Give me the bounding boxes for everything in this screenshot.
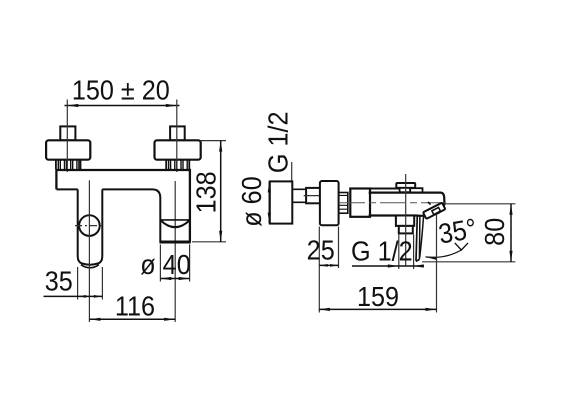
dim 116 line <box>89 318 175 320</box>
dim 138: top extension line <box>201 140 226 142</box>
handle/port vertical center line <box>405 174 407 266</box>
arrow 35 left <box>78 295 87 298</box>
right fitting square nut <box>170 126 185 140</box>
arrow 150 left <box>67 104 78 107</box>
35° angle arc <box>426 250 462 257</box>
main body <box>369 193 445 216</box>
spout opening chord <box>160 219 190 221</box>
left fitting body <box>46 140 90 159</box>
cartridge housing <box>350 189 370 217</box>
arrow 138 top <box>219 141 222 152</box>
svg-text:35°: 35° <box>436 212 479 250</box>
right fitting body <box>155 140 201 159</box>
right column left edge lower part <box>159 220 161 242</box>
spout blade tip <box>416 260 419 262</box>
arrow G1/2 pointing right <box>388 264 399 267</box>
svg-text:ø 60: ø 60 <box>236 176 268 226</box>
svg-text:ø 40: ø 40 <box>140 249 190 281</box>
spout blade line 1 <box>416 215 417 261</box>
spout bottom thick line <box>159 241 190 244</box>
nipple square nut <box>306 188 322 203</box>
dim ø60 line on flange edge <box>268 181 270 223</box>
nipple center line <box>304 195 324 197</box>
left column dish arc <box>81 265 99 268</box>
left fitting ribbed nut <box>56 160 81 169</box>
dim 159: right extension line <box>436 215 438 313</box>
arrow ø60 top <box>268 181 271 192</box>
svg-text:G 1/2: G 1/2 <box>351 235 413 267</box>
dim 25: extension line left (shared with 159) <box>318 227 320 313</box>
dim 25: extension line right <box>338 227 340 269</box>
dim 35: extension lines <box>77 267 79 300</box>
svg-text:G 1/2: G 1/2 <box>262 111 294 173</box>
arrow 25 left <box>319 264 328 267</box>
wall flange rect <box>270 181 293 223</box>
circle on left column <box>79 215 100 236</box>
dash-dot horizontal center mark through circle <box>75 225 104 227</box>
left column (handle body) <box>78 189 103 264</box>
arrow 25 right <box>330 264 339 267</box>
svg-text:159: 159 <box>357 281 399 313</box>
dim 35 line <box>44 295 103 297</box>
dim 25 line <box>319 264 338 266</box>
dim 138: bottom extension line <box>192 241 226 243</box>
bottom port rim <box>399 226 413 234</box>
dim ø40 line <box>160 278 189 280</box>
right fitting ribbed nut <box>166 160 189 169</box>
svg-text:35: 35 <box>45 265 73 297</box>
svg-text:116: 116 <box>115 290 155 322</box>
svg-text:80: 80 <box>479 218 511 246</box>
arrow 116 left <box>89 318 100 321</box>
arrow 35 right <box>94 295 103 298</box>
dim 80 line <box>510 204 512 262</box>
handle step right <box>410 188 422 192</box>
left column vertical center line <box>88 180 90 322</box>
wall bar outline <box>56 170 190 242</box>
dim ø40: extension lines <box>159 245 161 282</box>
wall bar bottom edge middle + fillet into right column <box>102 189 160 220</box>
arrow 159 left <box>319 308 330 311</box>
svg-text:138: 138 <box>190 171 222 213</box>
spout blade line 2 <box>418 216 421 260</box>
handle cap <box>396 183 415 188</box>
dim G 1/2 line <box>352 265 424 267</box>
dim 80: bottom extension line <box>422 261 515 263</box>
arc arrowhead right <box>455 243 468 250</box>
arrow 159 right <box>426 308 437 311</box>
body horizontal center line <box>339 202 446 204</box>
arc arrowhead left <box>425 255 436 260</box>
left fitting square nut <box>60 126 75 140</box>
arrow 80 bottom <box>509 251 512 262</box>
svg-text:25: 25 <box>307 234 335 266</box>
arrow 138 bottom <box>219 231 222 242</box>
svg-text:150 ± 20: 150 ± 20 <box>72 74 170 106</box>
right column vertical center line <box>174 181 176 322</box>
spout blade outer line <box>420 213 424 258</box>
leader line from G 1/2 <box>291 162 293 199</box>
dim G 1/2 bottom: extension lines <box>398 235 400 270</box>
arrow ø60 bottom <box>268 213 271 224</box>
ribbed ring <box>339 193 348 214</box>
arrow 80 top <box>509 204 512 215</box>
arrow G1/2 pointing left <box>413 264 424 267</box>
leader arrow down <box>290 197 293 208</box>
arrow 116 right <box>164 318 175 321</box>
dim 159 line <box>319 308 437 310</box>
spout opening arc <box>160 220 190 227</box>
escutcheon cover <box>320 181 339 225</box>
dimension 150 ± 20 line <box>65 105 180 107</box>
wall bar bottom edge left <box>56 188 77 190</box>
arrow ø40 left <box>160 277 171 280</box>
bottom port <box>396 216 414 226</box>
dim 138 line <box>220 141 222 242</box>
housing top edge extension to handle <box>370 188 400 190</box>
dim 80: top extension line <box>445 203 516 205</box>
nipple pipe lines <box>292 189 306 202</box>
arrow 150 right <box>166 104 177 107</box>
outlet nozzle (rotated) <box>428 202 431 205</box>
arrow ø40 right <box>179 277 190 280</box>
center line left fitting <box>66 100 68 173</box>
center line right fitting <box>176 100 178 173</box>
handle tier2 <box>400 188 411 192</box>
